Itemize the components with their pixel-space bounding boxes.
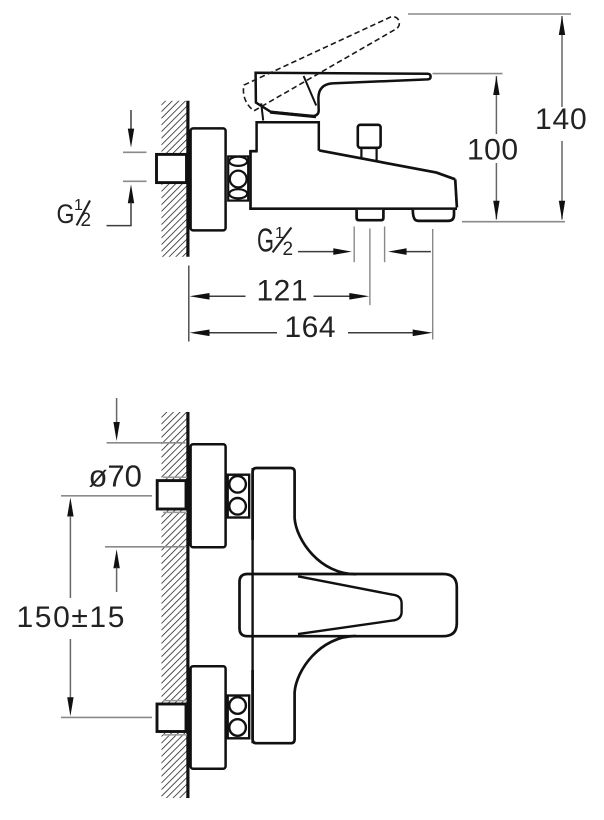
- handle base inner line: [261, 103, 263, 120]
- wall face line (top view): [186, 101, 189, 257]
- extension line handle top: [433, 73, 503, 75]
- G1/2 label left: [57, 197, 92, 231]
- dimension 121 arrow right: [349, 293, 369, 300]
- dia70 arrow down: [113, 422, 119, 441]
- dimension dia70 lower line: [116, 568, 118, 593]
- handle base bottom band: [270, 112, 316, 116]
- dimension 121 arrow left: [190, 293, 210, 300]
- dimension 164 line: [206, 332, 277, 334]
- spout outlet: [413, 210, 454, 221]
- dimension 140 arrow down: [559, 201, 565, 220]
- G1/2 callout arrow left: [298, 251, 334, 253]
- dimension 121 line: [206, 295, 246, 297]
- G1/2 dimension arrow up (stub): [128, 184, 134, 203]
- handle raised position (dashed): [243, 17, 399, 111]
- body bottom edge: [249, 207, 457, 210]
- diverter stem: [360, 148, 362, 160]
- dimension 150 line upper: [67, 498, 73, 517]
- G1/2 dimension arrow down (stub): [130, 110, 132, 130]
- shower outlet stub (bottom of body): [357, 210, 384, 220]
- dimension 100 arrow down: [493, 201, 499, 220]
- body top-left edge: [249, 150, 258, 153]
- faucet body fill (top view): [251, 151, 457, 207]
- wall escutcheon upper (bottom view): [191, 444, 226, 547]
- svg-text:121: 121: [257, 274, 309, 307]
- spout housing (plan): [240, 574, 457, 636]
- diverter knob: [358, 125, 381, 148]
- svg-text:150±15: 150±15: [17, 601, 127, 634]
- union nut bottom ellipse: [229, 189, 247, 198]
- union nut upper (bottom view): [228, 475, 250, 518]
- wall face line (bottom view): [186, 412, 189, 798]
- union nut top ellipse: [229, 157, 247, 166]
- svg-text:140: 140: [535, 103, 587, 136]
- svg-text:2: 2: [81, 210, 92, 231]
- handle lever (plan): [298, 576, 402, 634]
- handle crease line: [304, 76, 317, 106]
- extension line G1/2 lower (stub bottom): [123, 180, 147, 182]
- dimension 140 arrow up: [559, 16, 565, 35]
- dimension dia70 upper line: [116, 398, 118, 423]
- cartridge housing (top view): [257, 122, 319, 151]
- body fill (bottom view): [253, 468, 356, 743]
- extension line wall face below: [188, 266, 190, 342]
- svg-text:G: G: [57, 199, 75, 229]
- union nut lower (bottom view): [228, 696, 250, 739]
- wall escutcheon (top view): [191, 128, 226, 230]
- dimension 100 arrow up: [493, 76, 499, 95]
- body spout slope: [319, 150, 455, 179]
- svg-text:ø70: ø70: [89, 459, 142, 494]
- dia70 arrow up: [113, 549, 119, 568]
- extension line escutcheon top: [107, 442, 186, 444]
- extension line spout centre: [432, 229, 434, 340]
- union nut (top view): [228, 156, 248, 200]
- wall hatch (top view): [162, 101, 189, 257]
- extension line stub left edge: [353, 227, 355, 263]
- dimension 100 line: [495, 76, 497, 134]
- svg-text:G: G: [257, 221, 274, 258]
- extension line stub centre: [369, 229, 371, 306]
- G1/2 label bottom: [257, 221, 293, 259]
- svg-text:2: 2: [283, 239, 294, 260]
- wall hatch (bottom view): [162, 412, 189, 798]
- extension line outlet bottom plane: [462, 221, 565, 223]
- inlet pipe stub upper (bottom view): [157, 481, 186, 509]
- inlet pipe stub lower (bottom view): [157, 704, 186, 732]
- body right edge: [455, 179, 457, 207]
- extension line escutcheon bottom: [105, 546, 186, 548]
- dimension 164 arrow left: [190, 330, 210, 337]
- dimension 140 line: [561, 16, 563, 107]
- wall escutcheon lower (bottom view): [191, 666, 226, 769]
- svg-text:100: 100: [467, 133, 519, 166]
- body lower arm outline: [253, 636, 356, 743]
- G1/2 callout arrow right: [405, 251, 431, 253]
- extension line G1/2 upper (stub top): [123, 151, 147, 153]
- extension line top (raised handle tip): [408, 13, 571, 15]
- axis line lower connection: [61, 716, 152, 718]
- svg-text:164: 164: [285, 311, 337, 344]
- body left edge: [249, 151, 252, 209]
- body left edge (full): [251, 468, 253, 743]
- union nut sphere: [230, 171, 247, 188]
- dimension 164 arrow right: [413, 330, 433, 337]
- G1/2 leader line: [107, 225, 132, 227]
- handle body (solid, horizontal position): [256, 73, 431, 117]
- inlet pipe stub (top view): [157, 154, 187, 182]
- axis line upper connection: [61, 495, 152, 497]
- stub hidden edge marks: [163, 477, 187, 735]
- dimension 150 line lower: [69, 639, 71, 698]
- extension line stub right edge: [384, 227, 386, 263]
- body upper arm outline: [253, 468, 356, 574]
